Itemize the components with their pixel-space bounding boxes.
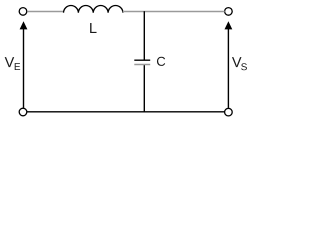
arrow VS head bbox=[225, 21, 233, 29]
terminal top-left bbox=[19, 8, 27, 16]
wire capacitor branch lower bbox=[143, 65, 145, 112]
label VS bbox=[232, 57, 242, 67]
wire bottom rail bbox=[27, 111, 225, 113]
inductor L bbox=[64, 6, 123, 13]
arrow VE head bbox=[20, 21, 28, 29]
label VE bbox=[5, 57, 15, 67]
terminal bottom-left bbox=[19, 108, 27, 116]
wire capacitor branch upper bbox=[143, 11, 145, 60]
wire top-right (inductor to output) bbox=[123, 11, 225, 13]
capacitor C top plate bbox=[134, 59, 150, 61]
label C bbox=[157, 57, 165, 66]
terminal top-right bbox=[225, 8, 233, 16]
terminal bottom-right bbox=[225, 108, 233, 116]
arrow VS shaft bbox=[227, 29, 229, 108]
arrow VE shaft bbox=[23, 29, 25, 108]
label L bbox=[90, 23, 96, 33]
capacitor C bottom plate bbox=[134, 64, 150, 66]
wire top-left (input to inductor) bbox=[27, 11, 63, 13]
